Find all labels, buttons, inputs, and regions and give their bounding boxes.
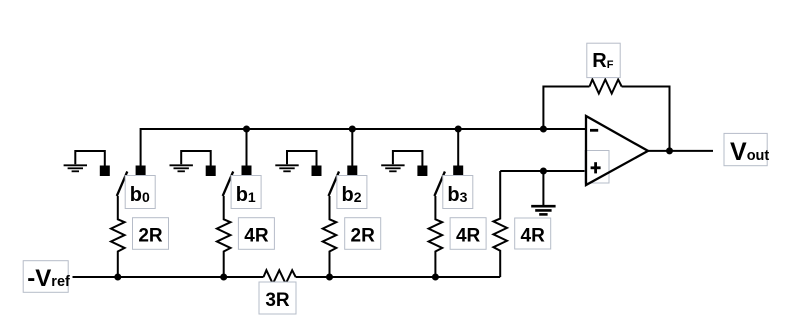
label b0: [125, 176, 155, 209]
svg-text:4R: 4R: [244, 225, 269, 246]
resistor 4R (bit 3): [429, 196, 443, 277]
wire: riser b1 to bus: [246, 129, 248, 166]
junction: rail node bit2: [326, 274, 333, 281]
wire: -Vref rail (left of 3R): [73, 276, 264, 278]
junction: output node: [666, 147, 673, 154]
wire: output: [648, 150, 713, 152]
wire: riser b3 to bus: [457, 129, 459, 166]
ground G0 (at switch b0): [64, 151, 105, 171]
junction: rail node bit0: [114, 274, 121, 281]
label b3: [443, 176, 473, 209]
resistor 2R (bit 0): [111, 196, 125, 277]
label 2R (bit 2): [345, 218, 381, 250]
switch b0 (SPDT blade + contacts): [100, 166, 146, 197]
label b2: [337, 176, 367, 209]
op-amp non-inverting input marker: [591, 162, 601, 173]
label 4R (bit 3): [450, 218, 486, 250]
resistor RF: [590, 80, 622, 94]
junction: bus node b2: [349, 126, 356, 133]
svg-text:2R: 2R: [138, 225, 163, 246]
label 4R (terminating): [515, 218, 551, 249]
junction: bus/feedback node: [540, 126, 547, 133]
junction: bus node b1: [243, 126, 250, 133]
svg-text:2R: 2R: [351, 225, 376, 246]
wire: top summing bus to inverting input: [141, 129, 586, 166]
svg-text:4R: 4R: [521, 225, 546, 246]
wire: feedback right segment: [622, 87, 670, 151]
switch b3 (SPDT blade + contacts): [417, 166, 463, 197]
junction: bus node b3: [455, 126, 462, 133]
label -Vref: [23, 261, 70, 293]
wire: non-inverting input: [500, 170, 586, 172]
label 4R (bit 1): [238, 218, 274, 250]
ground G3 (at switch b3): [381, 151, 422, 171]
junction: rail node bit3: [432, 274, 439, 281]
ground at +input: [531, 171, 555, 214]
resistor 2R (bit 2): [323, 196, 337, 277]
label RF: [587, 43, 620, 77]
svg-text:3R: 3R: [265, 290, 290, 311]
op-amp U1: [586, 116, 648, 185]
op-amp noninverting label box: [585, 151, 609, 184]
ground G1 (at switch b1): [170, 151, 211, 171]
label Vout: [724, 133, 769, 166]
wire: feedback left segment: [543, 87, 589, 130]
junction: rail node bit1: [220, 274, 227, 281]
label 2R (bit 0): [133, 218, 169, 250]
svg-text:4R: 4R: [456, 225, 481, 246]
wire: riser b2 to bus: [351, 129, 353, 166]
resistor 4R (terminating): [493, 171, 507, 277]
op-amp inverting input marker: [590, 129, 598, 132]
ground G2 (at switch b2): [275, 151, 316, 171]
label 3R: [259, 282, 296, 314]
switch b2 (SPDT blade + contacts): [312, 166, 358, 197]
wire: rail right of 3R to terminating resistor: [296, 276, 501, 278]
resistor 3R (in rail): [264, 270, 296, 284]
switch b1 (SPDT blade + contacts): [206, 166, 252, 197]
junction: +input node: [540, 168, 547, 175]
label b1: [231, 176, 261, 209]
resistor 4R (bit 1): [217, 196, 231, 277]
